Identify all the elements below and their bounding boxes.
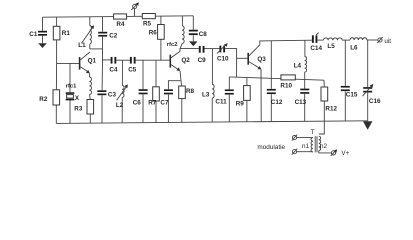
wire C4-C5	[116, 59, 130, 61]
ground under C1	[38, 43, 47, 48]
svg-text:R10: R10	[280, 82, 292, 89]
svg-text:R5: R5	[143, 20, 152, 27]
capacitor C1	[29, 17, 47, 43]
svg-text:R3: R3	[74, 106, 83, 113]
wire modulatie bottom	[297, 151, 313, 153]
capacitor C2	[98, 17, 118, 60]
wire Q3 base	[237, 57, 248, 59]
wire to output	[367, 39, 378, 41]
inductor L6	[350, 38, 367, 52]
label modulatie	[257, 144, 285, 151]
svg-text:C10: C10	[217, 55, 229, 62]
svg-text:T: T	[311, 129, 315, 136]
svg-text:C13: C13	[295, 99, 307, 106]
svg-text:C14: C14	[310, 45, 322, 52]
svg-text:L4: L4	[294, 62, 302, 69]
svg-text:L3: L3	[202, 92, 210, 99]
svg-text:R1: R1	[62, 30, 71, 37]
ground bus-end arrow	[363, 121, 372, 130]
svg-text:C7: C7	[160, 100, 169, 107]
svg-text:C9: C9	[198, 57, 207, 64]
resistor R4	[114, 14, 127, 28]
svg-text:C4: C4	[109, 67, 118, 74]
wire top supply rail	[43, 16, 194, 17]
wire Q3 emitter	[260, 69, 262, 122]
svg-text:n2: n2	[320, 143, 328, 150]
svg-text:n1: n1	[302, 143, 310, 150]
capacitor C13	[295, 79, 310, 122]
svg-text:X: X	[75, 95, 80, 102]
resistor R2	[39, 63, 59, 123]
capacitor C6	[133, 60, 148, 122]
inductor L3	[202, 49, 214, 123]
svg-text:Q1: Q1	[88, 57, 97, 64]
resistor R8	[179, 71, 195, 123]
capacitor C3	[97, 60, 116, 123]
svg-text:Q3: Q3	[257, 56, 266, 63]
capacitor C10 (trimmer)	[217, 43, 229, 62]
supply terminal	[131, 2, 139, 16]
terminal uit	[377, 37, 391, 45]
transformer winding n1	[302, 138, 313, 152]
wire C4 feed	[103, 59, 111, 61]
wire Q3 collector rail	[260, 40, 312, 45]
wire ground bus	[56, 121, 367, 124]
svg-text:rfc2: rfc2	[167, 42, 179, 48]
terminal V+	[331, 149, 350, 157]
svg-text:R8: R8	[186, 88, 195, 95]
svg-text:V+: V+	[341, 150, 349, 157]
transformer T core	[311, 129, 317, 152]
resistor R9	[236, 78, 251, 123]
wire Q1 collector node	[90, 48, 103, 50]
capacitor C11	[215, 77, 233, 122]
svg-text:C3: C3	[108, 91, 117, 98]
capacitor C9	[198, 46, 207, 64]
svg-text:L1: L1	[78, 42, 86, 49]
svg-text:C16: C16	[369, 98, 381, 105]
crystal X	[66, 63, 80, 123]
terminal modulatie bottom	[292, 149, 297, 155]
capacitor C4	[109, 57, 118, 74]
svg-text:R7: R7	[148, 100, 157, 107]
svg-text:C6: C6	[133, 99, 142, 106]
svg-text:C2: C2	[109, 33, 118, 40]
ground under C8	[189, 41, 197, 46]
capacitor C7	[160, 81, 180, 123]
svg-text:C11: C11	[215, 98, 227, 105]
transistor Q1	[80, 52, 97, 73]
wire Q2 base line	[136, 59, 170, 61]
svg-text:C1: C1	[29, 31, 38, 38]
svg-text:R4: R4	[116, 21, 125, 28]
svg-text:L5: L5	[327, 43, 335, 50]
inductor rfc2	[167, 16, 184, 49]
capacitor C16 (variable)	[363, 40, 381, 121]
svg-text:uit: uit	[384, 38, 391, 45]
svg-text:L6: L6	[350, 44, 358, 51]
resistor R1	[53, 17, 70, 63]
capacitor C15	[341, 40, 358, 121]
svg-text:Q2: Q2	[181, 57, 190, 64]
resistor R7	[148, 60, 159, 122]
wire Q2 collector	[180, 48, 199, 51]
inductor L4	[294, 40, 307, 78]
inductor L5	[317, 38, 342, 50]
svg-text:R2: R2	[39, 96, 48, 103]
wire n2 to V+	[319, 151, 332, 153]
inductor L1 (variable)	[78, 17, 94, 49]
capacitor C14	[310, 33, 322, 52]
svg-text:C15: C15	[346, 92, 358, 99]
wire Q1 base	[57, 62, 80, 64]
svg-text:C12: C12	[271, 99, 283, 106]
resistor R5	[142, 14, 155, 28]
svg-text:modulatie: modulatie	[257, 144, 285, 151]
transformer winding n2	[319, 136, 328, 150]
terminal modulatie top	[292, 135, 297, 141]
svg-text:L2: L2	[116, 102, 124, 109]
inductor L2 (variable)	[116, 60, 128, 123]
svg-text:R9: R9	[236, 101, 245, 108]
wire modulatie top	[297, 137, 313, 139]
transistor Q3	[248, 45, 266, 70]
resistor R10	[280, 75, 295, 90]
resistor R6	[149, 16, 165, 60]
resistor R12	[319, 80, 338, 134]
svg-text:R6: R6	[149, 29, 158, 36]
resistor R3	[74, 100, 93, 123]
svg-text:rfc1: rfc1	[66, 84, 78, 90]
capacitor C5	[128, 57, 137, 74]
svg-text:C5: C5	[128, 67, 137, 74]
svg-text:R12: R12	[325, 106, 337, 113]
wire C9-C10	[205, 48, 220, 50]
wire bias line W1	[229, 77, 324, 80]
capacitor C8	[189, 16, 207, 42]
wire C10 to Q3	[225, 48, 237, 77]
capacitor C12	[267, 41, 283, 122]
transistor Q2	[170, 51, 190, 71]
inductor rfc1	[66, 73, 92, 99]
svg-text:C8: C8	[199, 31, 208, 38]
wire L5-L6	[342, 39, 350, 41]
